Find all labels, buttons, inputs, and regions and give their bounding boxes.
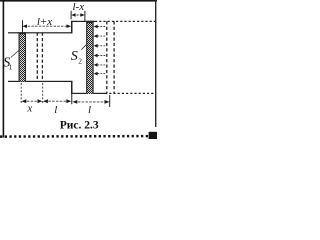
piston S2 hatched bar bbox=[86, 21, 93, 94]
dimension l (first) : line with arrowheads bbox=[43, 99, 71, 103]
wire: right cylinder top wall solid part bbox=[71, 21, 95, 22]
dimension l (second) : right tick bbox=[109, 95, 110, 107]
dashed initial position line of piston S2 (right edge) bbox=[113, 21, 115, 93]
dimension l+x : line with arrowheads bbox=[22, 24, 71, 28]
dashed initial position line of piston S1 (left edge) bbox=[36, 33, 38, 81]
frame: left border bbox=[3, 0, 5, 138]
pressure arrow 3 on piston S2 bbox=[94, 44, 106, 48]
pressure arrow 2 on piston S2 bbox=[94, 34, 106, 38]
piston S1 hatched bar bbox=[19, 32, 27, 81]
wire: left cylinder top wall bbox=[8, 32, 72, 33]
svg-text:x: x bbox=[26, 103, 32, 115]
dimension l-x : left tick bbox=[71, 11, 72, 19]
svg-text:l: l bbox=[54, 104, 57, 116]
frame: top border bbox=[0, 0, 157, 2]
svg-text:2: 2 bbox=[78, 57, 82, 66]
frame: right border bbox=[155, 0, 156, 127]
dimension l+x : tick at piston S1 bbox=[22, 20, 23, 32]
svg-text:l+x: l+x bbox=[37, 16, 52, 28]
wire: left cylinder bottom wall bbox=[8, 81, 72, 82]
wire: step wall lower bbox=[71, 81, 73, 94]
pressure arrow 5 on piston S2 bbox=[94, 63, 106, 67]
svg-text:S: S bbox=[71, 49, 78, 64]
wire: right cylinder top wall dashed part bbox=[95, 20, 155, 22]
dimension l (second) : line with arrowheads bbox=[72, 100, 109, 104]
label S1 with leader line bbox=[3, 50, 20, 72]
frame: bottom dotted border bbox=[0, 135, 150, 138]
wire: right cylinder bottom wall solid part bbox=[71, 93, 105, 94]
frame: bottom-right corner block bbox=[149, 132, 157, 139]
dashed initial position line of piston S2 (left edge) bbox=[106, 21, 108, 93]
pressure arrow 6 on piston S2 bbox=[94, 72, 106, 76]
wire: step wall upper bbox=[71, 21, 73, 34]
label S2 with leader line bbox=[71, 44, 87, 65]
svg-text:l-x: l-x bbox=[72, 1, 84, 13]
wire: step wall dimension extension bbox=[71, 94, 72, 104]
dimension x : left extension line bbox=[20, 83, 22, 104]
wire: right cylinder bottom wall dashed part bbox=[105, 92, 155, 94]
dashed initial position line of piston S1 (right edge) bbox=[41, 33, 43, 81]
svg-text:l: l bbox=[88, 104, 91, 116]
dimension x : right extension line bbox=[42, 83, 44, 104]
svg-text:1: 1 bbox=[9, 63, 13, 72]
dimension l-x : line with arrowheads bbox=[71, 13, 85, 17]
svg-text:Рис. 2.3: Рис. 2.3 bbox=[60, 120, 99, 132]
dimension l-x : right tick bbox=[84, 11, 85, 22]
pressure arrow 4 on piston S2 bbox=[94, 54, 106, 58]
dimension x : line with arrowheads bbox=[21, 99, 42, 103]
pressure arrow 1 on piston S2 bbox=[94, 25, 106, 29]
